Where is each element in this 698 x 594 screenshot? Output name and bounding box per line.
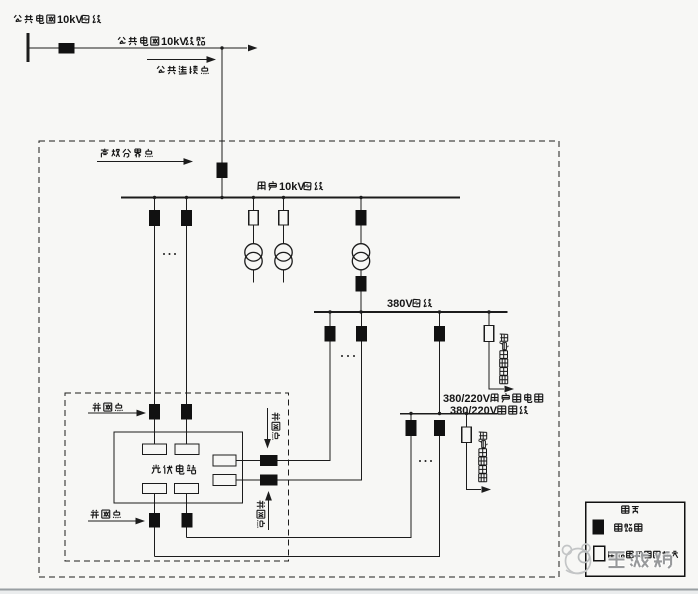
breaker QF8 feeder F	[325, 326, 336, 342]
label: user 10kV busbar	[258, 182, 276, 191]
wire feeder A down to grid-connection point	[154, 226, 156, 404]
breaker QF16 grid-connection bottom B	[182, 513, 193, 528]
breaker QF14 feeder K lower	[434, 420, 445, 436]
label: grid-connection point (top left)	[93, 403, 123, 412]
svg-text:10kV: 10kV	[57, 14, 83, 26]
label: property demarcation point	[101, 149, 152, 158]
junction on 380V busbar x=330	[328, 310, 331, 313]
breaker QF6 grid-connection point A	[149, 404, 160, 420]
legend text: breaker	[615, 524, 642, 531]
junction on 10kV busbar x=186.5	[185, 196, 188, 199]
junction on 380V busbar x=489	[487, 310, 490, 313]
svg-text:380/220V: 380/220V	[450, 405, 498, 417]
legend title	[622, 506, 639, 513]
transformer T x=253.5	[245, 244, 262, 261]
wire B2 to 537	[186, 528, 188, 538]
svg-text:10kV: 10kV	[161, 36, 187, 48]
legend box	[586, 502, 685, 576]
label: grid-connection point (bottom left)	[91, 510, 121, 519]
wire feeder G elbow	[278, 342, 362, 481]
wire to 380V busbar	[360, 292, 362, 313]
ellipsis between feeders A,B	[163, 253, 165, 255]
380/220V busbar	[400, 413, 498, 415]
junction on 380/220V busbar x=466.5	[465, 412, 468, 415]
user 10kV busbar	[121, 197, 460, 199]
svg-text:380/220V: 380/220V	[443, 393, 491, 405]
wire feeder B into PV station	[186, 420, 188, 445]
breaker QF13 feeder J	[406, 420, 417, 436]
junction on 380/220V busbar x=411	[409, 412, 412, 415]
breaker QF7 grid-connection point B	[181, 404, 192, 420]
wire feeder F elbow	[278, 342, 331, 461]
switch (white) load L	[462, 427, 472, 443]
transformer T3	[352, 244, 369, 261]
label: user internal load (vertical, left col)	[478, 432, 487, 482]
wire feeder B upper	[186, 198, 188, 211]
legend text: disconnect switch	[609, 551, 678, 558]
PV inverter module R2	[213, 475, 236, 486]
pointer arrow: demarcation point	[97, 161, 184, 163]
wire load L elbow with arrow	[467, 443, 482, 490]
380V busbar	[314, 311, 508, 313]
wire transformer T3 secondary	[360, 270, 362, 276]
wire to transformer x=283.5	[283, 225, 285, 244]
label: public grid 10kV line	[118, 36, 159, 45]
wire stub below transformer x=283.5	[283, 270, 285, 283]
wire load I elbow with arrow	[489, 342, 504, 390]
wire to PV inverter R2	[236, 479, 260, 481]
wire feeder F upper	[329, 312, 331, 326]
wire to PV inverter R1	[236, 460, 260, 462]
pointer arrow down (right top)	[267, 408, 269, 439]
wire: incoming to user busbar	[221, 178, 223, 198]
wire feeder J upper	[410, 414, 412, 421]
breaker QF2 feeder A	[149, 210, 160, 226]
label: public connection point	[157, 66, 208, 75]
PV inverter module B1	[143, 484, 167, 494]
junction on 10kV busbar x=154.5	[153, 196, 156, 199]
junction on 10kV busbar x=361	[359, 196, 362, 199]
pointer arrow: grid-connection point bottom left	[88, 520, 136, 522]
PV inverter module T2	[175, 444, 199, 455]
outer dashed boundary (user premises)	[39, 141, 559, 577]
junction on 10kV busbar x=253.5	[252, 196, 255, 199]
watermark logo	[563, 544, 591, 574]
PV inverter module R1	[213, 455, 236, 466]
breaker QF1 incoming	[217, 163, 228, 179]
pointer arrow: grid-connection point top left	[88, 412, 137, 414]
breaker QF15 grid-connection bottom A	[149, 513, 160, 528]
inner dashed boundary (PV plant)	[65, 393, 289, 561]
PV inverter module B2	[175, 484, 199, 494]
bottom separator strip	[0, 590, 698, 594]
public grid 10kV busbar	[27, 33, 30, 62]
legend symbol: switch (white)	[594, 546, 605, 561]
wire PV B2 down	[186, 494, 188, 514]
wire load I upper	[488, 312, 490, 326]
wire feeder E upper	[360, 198, 362, 211]
breaker QF10 grid-connection (right top)	[260, 455, 278, 466]
PV station box	[114, 432, 243, 503]
wire to transformer x=253.5	[253, 225, 255, 244]
ellipsis between feeders J,K	[419, 460, 421, 462]
label: user internal load (vertical, right col)	[499, 334, 508, 384]
ellipsis between feeders G,H	[341, 355, 343, 357]
pointer arrow up (right bottom)	[268, 500, 270, 530]
label: PV station	[152, 464, 196, 474]
junction on 380V busbar x=361	[359, 310, 362, 313]
junction on 380/220V busbar x=439.5	[438, 412, 441, 415]
junction: PCC node	[220, 46, 223, 49]
junction on 10kV busbar x=222	[220, 196, 223, 199]
svg-text:380V: 380V	[387, 298, 413, 310]
wire stub below transformer x=253.5	[253, 270, 255, 283]
junction on 10kV busbar x=283.5	[282, 196, 285, 199]
label: grid-connection point (right bottom, vertical)	[257, 501, 265, 528]
wire transformer feeder x=283.5	[283, 198, 285, 211]
wire feeder K upper	[439, 312, 441, 326]
wire feeder E to transformer	[360, 226, 362, 245]
junction on 380V busbar x=439.5	[438, 310, 441, 313]
svg-text:10kV: 10kV	[279, 181, 305, 193]
wire feeder B down to grid-connection point	[186, 226, 188, 404]
pointer arrow: public connection point	[147, 59, 207, 61]
wire feeder G upper	[361, 312, 363, 326]
breaker QF3 feeder B	[181, 210, 192, 226]
switch (white) on transformer feeder x=253.5	[249, 211, 259, 226]
wire feeder K to 380/220V busbar	[439, 342, 441, 414]
breaker QF4 feeder E	[356, 210, 367, 226]
breaker QF5 T3 secondary	[356, 276, 367, 292]
transformer T x=283.5	[275, 244, 292, 261]
label: public grid 10kV busbar	[14, 14, 55, 23]
wire: drop from PCC	[221, 48, 223, 163]
arrowhead: line direction	[248, 45, 258, 52]
wire PV B1 down	[154, 494, 156, 514]
legend symbol: breaker (black)	[593, 520, 605, 535]
breaker QF9 feeder G	[356, 326, 367, 342]
wire load L upper	[466, 414, 468, 428]
wire transformer feeder x=253.5	[253, 198, 255, 211]
wire B1 to 556	[154, 528, 156, 557]
label: grid-connection point (right top, vertical)	[272, 413, 280, 440]
wire: public grid 10kV line	[28, 47, 247, 49]
breaker QF0 on public grid line	[59, 43, 75, 54]
switch (white) on transformer feeder x=283.5	[279, 211, 289, 226]
wire feeder A into PV station	[154, 420, 156, 445]
wire feeder K elbow to PV B1	[155, 436, 440, 557]
breaker QF11 grid-connection (right bottom)	[260, 475, 278, 486]
watermark text	[609, 552, 672, 568]
breaker QF12 feeder K	[434, 326, 445, 342]
PV inverter module T1	[143, 444, 167, 455]
wire feeder J elbow to PV B2	[187, 436, 412, 538]
wire feeder A upper	[154, 198, 156, 211]
switch (white) load I	[484, 326, 494, 342]
